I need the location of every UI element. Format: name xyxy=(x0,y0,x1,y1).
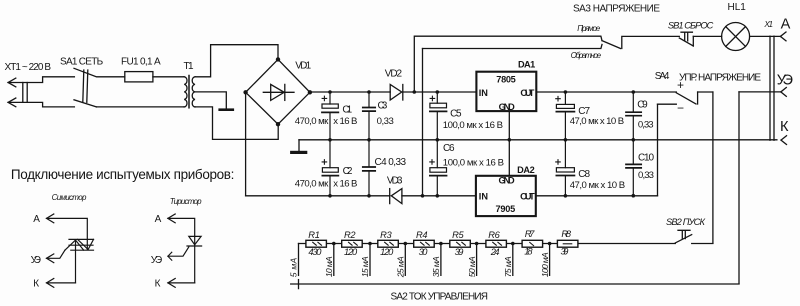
svg-text:100,0 мк x 16 В: 100,0 мк x 16 В xyxy=(443,120,503,131)
svg-text:SB1 СБРОС: SB1 СБРОС xyxy=(668,20,714,30)
svg-text:VD1: VD1 xyxy=(295,61,311,72)
svg-text:Симистор: Симистор xyxy=(52,193,87,202)
svg-text:К: К xyxy=(155,279,161,290)
svg-text:DA2: DA2 xyxy=(517,165,535,175)
svg-text:УЭ: УЭ xyxy=(151,255,162,266)
svg-text:SA4: SA4 xyxy=(655,71,670,82)
svg-text:DA1: DA1 xyxy=(518,60,535,70)
svg-text:OUT: OUT xyxy=(520,88,534,98)
svg-text:Тиристор: Тиристор xyxy=(170,197,202,206)
svg-text:R3: R3 xyxy=(380,230,392,240)
svg-text:GND: GND xyxy=(499,102,516,112)
svg-text:R5: R5 xyxy=(452,230,464,240)
svg-text:Прямое: Прямое xyxy=(577,24,601,33)
svg-text:Подключение испытуемых приборо: Подключение испытуемых приборов: xyxy=(11,167,235,182)
svg-text:−: − xyxy=(677,101,684,115)
svg-text:470,0 мк: 470,0 мк xyxy=(295,116,329,127)
svg-text:120: 120 xyxy=(344,247,358,257)
svg-text:470,0 мк: 470,0 мк xyxy=(295,178,329,189)
svg-text:Обратное: Обратное xyxy=(571,51,602,60)
svg-text:FU1 0,1 А: FU1 0,1 А xyxy=(121,56,161,67)
svg-text:К: К xyxy=(33,279,39,290)
svg-text:0,33: 0,33 xyxy=(377,116,394,127)
svg-text:R1: R1 xyxy=(308,230,320,240)
svg-text:C10: C10 xyxy=(638,152,654,163)
svg-text:SA2 ТОК УПРАВЛЕНИЯ: SA2 ТОК УПРАВЛЕНИЯ xyxy=(391,292,489,303)
svg-text:R8: R8 xyxy=(561,229,571,239)
svg-text:SA1 СЕТЬ: SA1 СЕТЬ xyxy=(60,56,104,67)
svg-text:УПР. НАПРЯЖЕНИЕ: УПР. НАПРЯЖЕНИЕ xyxy=(679,73,761,84)
svg-text:R6: R6 xyxy=(488,230,500,240)
svg-text:IN: IN xyxy=(479,191,489,201)
svg-text:100,0 мк x 16 В: 100,0 мк x 16 В xyxy=(443,157,504,168)
svg-text:30: 30 xyxy=(419,247,429,257)
svg-text:+: + xyxy=(677,78,684,92)
svg-text:IN: IN xyxy=(479,88,489,98)
svg-text:А: А xyxy=(155,214,162,225)
svg-text:XT1 ~ 220 В: XT1 ~ 220 В xyxy=(5,62,52,73)
svg-text:39: 39 xyxy=(455,247,464,257)
svg-text:HL1: HL1 xyxy=(728,2,747,13)
svg-text:А: А xyxy=(33,214,40,225)
svg-text:VD3: VD3 xyxy=(387,176,403,187)
svg-text:X1: X1 xyxy=(763,20,773,29)
svg-text:100 мА: 100 мА xyxy=(540,252,550,277)
svg-text:УЭ: УЭ xyxy=(31,255,41,266)
svg-text:430: 430 xyxy=(308,247,322,257)
svg-text:R4: R4 xyxy=(416,230,428,240)
svg-text:SB2 ПУСК: SB2 ПУСК xyxy=(666,217,706,227)
svg-text:x 16 В: x 16 В xyxy=(333,178,357,189)
svg-text:47,0 мк x 10 В: 47,0 мк x 10 В xyxy=(570,180,626,191)
svg-text:120: 120 xyxy=(380,247,394,257)
svg-text:УЭ: УЭ xyxy=(777,73,793,89)
svg-text:C2: C2 xyxy=(343,166,353,177)
svg-text:А: А xyxy=(781,17,791,33)
svg-text:0,33: 0,33 xyxy=(638,120,654,131)
svg-text:18: 18 xyxy=(524,247,533,257)
svg-text:C5: C5 xyxy=(450,109,462,120)
svg-text:24: 24 xyxy=(490,247,500,257)
svg-text:10 мА: 10 мА xyxy=(324,256,334,277)
svg-text:0,33: 0,33 xyxy=(638,170,654,181)
svg-text:R2: R2 xyxy=(344,230,356,240)
svg-text:C1: C1 xyxy=(342,105,352,116)
svg-text:50 мА: 50 мА xyxy=(467,256,477,277)
svg-text:5 мА: 5 мА xyxy=(289,258,299,278)
svg-text:R7: R7 xyxy=(525,229,535,239)
svg-text:25 мА: 25 мА xyxy=(396,256,406,278)
svg-text:x 16 В: x 16 В xyxy=(333,116,357,127)
svg-text:C9: C9 xyxy=(637,99,648,110)
svg-text:GND: GND xyxy=(499,176,516,186)
svg-text:SA3 НАПРЯЖЕНИЕ: SA3 НАПРЯЖЕНИЕ xyxy=(573,4,660,15)
svg-text:C8: C8 xyxy=(578,169,590,180)
svg-text:39: 39 xyxy=(561,247,569,257)
svg-text:C6: C6 xyxy=(443,143,455,154)
svg-text:К: К xyxy=(780,119,789,135)
svg-text:35 мА: 35 мА xyxy=(431,256,441,277)
svg-text:47,0 мк x 10 В: 47,0 мк x 10 В xyxy=(570,116,624,127)
svg-text:15 мА: 15 мА xyxy=(360,256,370,277)
svg-text:VD2: VD2 xyxy=(385,68,403,79)
svg-text:C3: C3 xyxy=(378,101,388,112)
svg-text:T1: T1 xyxy=(184,61,194,72)
svg-text:7805: 7805 xyxy=(496,75,516,85)
svg-text:C4 0,33: C4 0,33 xyxy=(375,157,407,168)
svg-text:75 мА: 75 мА xyxy=(503,256,513,277)
svg-text:7905: 7905 xyxy=(496,204,516,214)
svg-text:OUT: OUT xyxy=(520,191,535,201)
